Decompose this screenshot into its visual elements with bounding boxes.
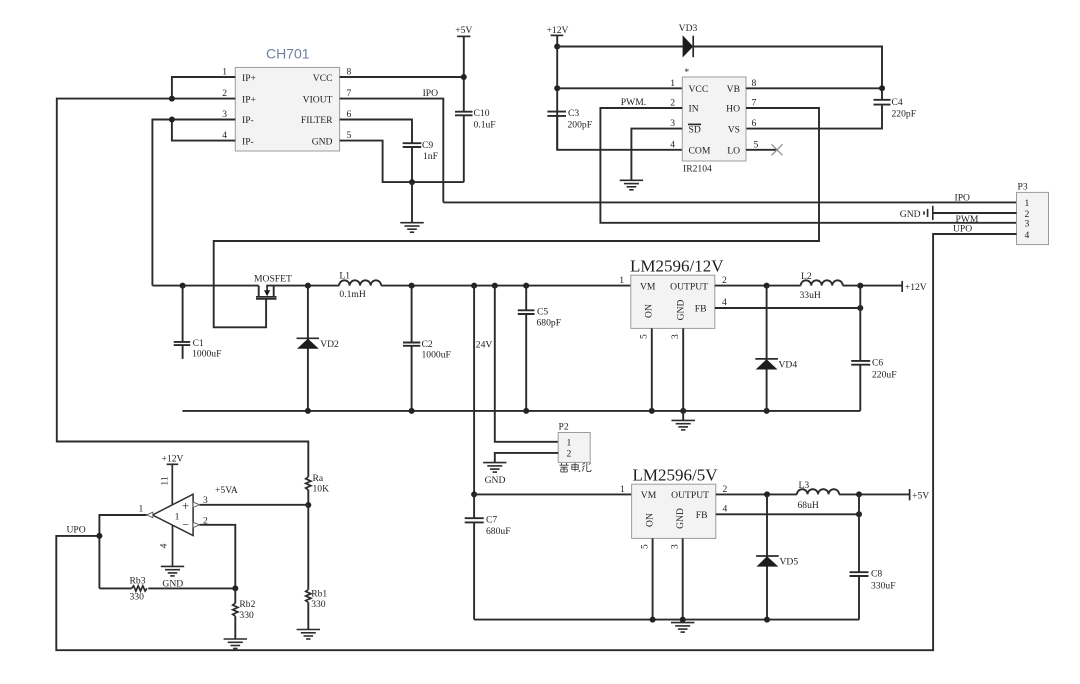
svg-text:LM2596/5V: LM2596/5V bbox=[633, 466, 719, 485]
svg-text:0.1mH: 0.1mH bbox=[339, 289, 365, 300]
resistor Rb3 330 bbox=[99, 575, 235, 602]
capacitor C4 bbox=[874, 97, 917, 120]
power +12V (op-amp) bbox=[162, 454, 184, 505]
svg-text:ON: ON bbox=[644, 304, 655, 318]
wire U4 OUTPUT to L3 bbox=[716, 491, 797, 497]
svg-text:PWM.: PWM. bbox=[621, 97, 646, 108]
svg-text:FB: FB bbox=[696, 510, 708, 521]
svg-text:68uH: 68uH bbox=[798, 500, 819, 511]
wire +5VA node to op-amp pin3 bbox=[200, 504, 309, 506]
inductor L1 bbox=[339, 271, 381, 301]
svg-text:L1: L1 bbox=[339, 271, 350, 282]
node feedback junction bbox=[232, 585, 238, 591]
terminal +12V output bbox=[902, 281, 927, 293]
svg-text:OUTPUT: OUTPUT bbox=[670, 281, 708, 292]
connector P3 bbox=[1017, 182, 1049, 245]
svg-text:330: 330 bbox=[239, 610, 254, 621]
svg-text:680pF: 680pF bbox=[537, 317, 562, 328]
wire P3 pin2 to gnd symbol bbox=[933, 212, 1017, 214]
ground (SD pin) bbox=[620, 180, 643, 190]
svg-text:LO: LO bbox=[727, 146, 740, 157]
wire +5V to VCC and C10 bbox=[340, 36, 467, 111]
wire PWM net: IN pin to P3 bbox=[600, 97, 1016, 223]
wire C3 bottom / COM line bbox=[557, 116, 682, 150]
svg-text:0.1uF: 0.1uF bbox=[474, 120, 496, 131]
ground (below C9) bbox=[400, 223, 423, 233]
svg-text:C7: C7 bbox=[486, 515, 497, 526]
svg-text:1: 1 bbox=[670, 78, 675, 89]
svg-text:8: 8 bbox=[347, 67, 352, 78]
wire U4 pin3 GND to ground rail bbox=[682, 538, 684, 622]
svg-text:LM2596/12V: LM2596/12V bbox=[630, 257, 724, 276]
svg-text:IPO: IPO bbox=[955, 192, 971, 203]
svg-text:1: 1 bbox=[620, 484, 625, 495]
terminal +5V output bbox=[910, 489, 930, 502]
svg-text:VCC: VCC bbox=[313, 73, 333, 84]
svg-text:7: 7 bbox=[752, 98, 757, 109]
svg-text:VIOUT: VIOUT bbox=[303, 94, 333, 105]
wire U5 pin4 to ground bbox=[172, 526, 174, 567]
svg-text:MOSFET: MOSFET bbox=[254, 274, 292, 285]
svg-text:C2: C2 bbox=[422, 339, 433, 350]
ground (P2) bbox=[483, 463, 506, 473]
svg-text:VD5: VD5 bbox=[780, 557, 799, 568]
svg-text:HO: HO bbox=[726, 104, 740, 115]
svg-text:+12V: +12V bbox=[905, 282, 927, 293]
wire LO pin stub bbox=[746, 149, 777, 151]
wire IPO net to P3 pin1 bbox=[443, 192, 1016, 203]
svg-text:5: 5 bbox=[347, 130, 352, 141]
wire ground rail (12V section) bbox=[182, 408, 860, 414]
wire L3 to +5V terminal bbox=[839, 491, 910, 497]
ground (U3 pin3) bbox=[672, 420, 695, 430]
svg-text:GND: GND bbox=[312, 136, 333, 147]
connector P2 bbox=[558, 422, 590, 463]
svg-text:IR2104: IR2104 bbox=[683, 164, 712, 175]
svg-text:VD2: VD2 bbox=[320, 339, 339, 350]
svg-text:24V: 24V bbox=[476, 340, 493, 351]
wire U4 pin5 ON to ground rail bbox=[652, 538, 654, 619]
svg-text:ON: ON bbox=[644, 513, 655, 527]
svg-text:1: 1 bbox=[222, 67, 227, 78]
svg-text:4: 4 bbox=[670, 139, 675, 150]
svg-text:+12V: +12V bbox=[162, 454, 184, 465]
wire U4 FB to output node bbox=[716, 494, 862, 572]
capacitor C2 bbox=[403, 286, 451, 411]
svg-text:P2: P2 bbox=[559, 422, 569, 433]
wire battery P2 positive net bbox=[495, 286, 558, 442]
svg-text:680uF: 680uF bbox=[486, 526, 511, 537]
transistor Q1 MOSFET bbox=[254, 274, 292, 299]
ground (U5 pin4) bbox=[161, 566, 184, 589]
svg-text:C8: C8 bbox=[871, 569, 882, 580]
wire node 24V down to 5V regulator input bbox=[474, 286, 492, 495]
IC U4 LM2596/5V bbox=[632, 466, 719, 539]
wire U5 pin2 to feedback node bbox=[200, 525, 236, 589]
svg-text:+5V: +5V bbox=[912, 491, 929, 502]
svg-text:COM: COM bbox=[689, 146, 711, 157]
svg-text:UPO: UPO bbox=[953, 224, 972, 235]
svg-text:UPO: UPO bbox=[67, 525, 86, 536]
svg-text:SD: SD bbox=[689, 124, 701, 135]
svg-text:+12V: +12V bbox=[547, 25, 569, 36]
svg-text:C3: C3 bbox=[568, 108, 579, 119]
wire U5 output to UPO node bbox=[96, 515, 146, 588]
svg-text:330: 330 bbox=[130, 592, 145, 603]
capacitor C8 bbox=[850, 569, 896, 620]
wire L2 to +12V terminal bbox=[843, 283, 902, 289]
node +5VA bbox=[215, 485, 311, 508]
resistor Rb2 330 bbox=[233, 588, 256, 639]
wire C10 bottom to gnd node bbox=[463, 115, 465, 182]
svg-text:200pF: 200pF bbox=[568, 120, 593, 131]
svg-text:1000uF: 1000uF bbox=[422, 350, 451, 361]
resistor Ra 10K bbox=[306, 473, 329, 505]
wire main 24V rail (left segment to MOSFET) bbox=[152, 285, 258, 287]
diode VD3 bbox=[679, 23, 698, 58]
svg-text:11: 11 bbox=[160, 476, 171, 485]
wire U3 pin5 ON to ground rail bbox=[651, 328, 653, 411]
diode VD4 bbox=[755, 286, 797, 411]
svg-text:4: 4 bbox=[722, 297, 727, 308]
wire C4 bottom to VS line bbox=[746, 105, 882, 129]
svg-text:3: 3 bbox=[222, 109, 227, 120]
svg-text:2: 2 bbox=[567, 449, 572, 460]
label 蓄电池 (battery) bbox=[560, 463, 592, 472]
svg-text:1000uF: 1000uF bbox=[192, 349, 221, 360]
svg-text:P3: P3 bbox=[1018, 182, 1028, 193]
svg-text:L3: L3 bbox=[799, 480, 810, 491]
svg-text:*: * bbox=[684, 67, 689, 78]
svg-text:IPO: IPO bbox=[423, 88, 439, 99]
capacitor C9 bbox=[403, 140, 438, 162]
svg-text:1nF: 1nF bbox=[423, 151, 438, 162]
svg-text:GND: GND bbox=[676, 300, 687, 321]
ground (rotated, P3 pin2) bbox=[900, 206, 933, 220]
svg-text:33uH: 33uH bbox=[800, 290, 821, 301]
svg-text:VCC: VCC bbox=[689, 84, 709, 95]
IC U3 LM2596/12V bbox=[630, 257, 724, 329]
diode VD5 bbox=[756, 494, 798, 619]
svg-text:1: 1 bbox=[619, 275, 624, 286]
svg-text:IP+: IP+ bbox=[242, 73, 256, 84]
svg-text:2: 2 bbox=[723, 484, 728, 495]
wire U3 OUTPUT to L2 bbox=[715, 283, 801, 289]
svg-text:C4: C4 bbox=[892, 97, 903, 108]
wire IP+ net: pins 1,2 down left bus bbox=[57, 77, 308, 477]
capacitor C3 bbox=[547, 108, 592, 131]
wire GND pin 5 to ground bus bbox=[340, 141, 464, 223]
wire P2 pin2 to ground bbox=[495, 453, 558, 463]
svg-text:C5: C5 bbox=[537, 307, 548, 318]
svg-text:+: + bbox=[182, 498, 189, 513]
svg-text:Rb1: Rb1 bbox=[311, 589, 327, 600]
ground (Rb2) bbox=[224, 639, 247, 649]
wire ground rail (5V section) bbox=[474, 617, 859, 623]
svg-text:VD4: VD4 bbox=[779, 360, 798, 371]
svg-text:FILTER: FILTER bbox=[301, 115, 333, 126]
svg-text:−: − bbox=[182, 518, 189, 532]
wire C9 bottom bbox=[411, 147, 413, 182]
svg-text:Rb2: Rb2 bbox=[239, 599, 255, 610]
svg-text:Ra: Ra bbox=[313, 473, 324, 484]
wire U3 FB to output node bbox=[715, 286, 864, 361]
capacitor C7 bbox=[465, 494, 511, 619]
svg-text:1: 1 bbox=[139, 504, 144, 515]
svg-text:6: 6 bbox=[752, 118, 757, 129]
no-connect X on LO bbox=[772, 144, 783, 155]
svg-text:CH701: CH701 bbox=[266, 46, 310, 62]
wire main 24V rail (MOSFET to LM2596/12V pin1) bbox=[180, 283, 631, 289]
wire SD pin to ground bbox=[631, 129, 682, 181]
wire UPO net: P3 pin4 down and along bottom to op-amp bbox=[56, 224, 1016, 651]
svg-text:GND: GND bbox=[485, 475, 506, 486]
svg-text:8: 8 bbox=[752, 78, 757, 89]
svg-text:L2: L2 bbox=[801, 271, 812, 282]
svg-text:7: 7 bbox=[347, 88, 352, 99]
svg-text:FB: FB bbox=[695, 304, 707, 315]
inductor L2 bbox=[800, 271, 843, 301]
svg-text:C1: C1 bbox=[193, 338, 204, 349]
svg-text:3: 3 bbox=[203, 495, 208, 506]
svg-text:1: 1 bbox=[1025, 198, 1030, 209]
wire HO net to MOSFET gate bbox=[214, 108, 819, 327]
svg-text:4: 4 bbox=[222, 130, 227, 141]
svg-text:220pF: 220pF bbox=[892, 109, 917, 120]
wire FILTER to C9 bbox=[340, 120, 412, 144]
svg-text:IP-: IP- bbox=[242, 115, 254, 126]
svg-text:C10: C10 bbox=[474, 108, 490, 119]
svg-text:+5VA: +5VA bbox=[215, 485, 238, 496]
svg-text:3: 3 bbox=[670, 544, 681, 549]
svg-text:2: 2 bbox=[670, 98, 675, 109]
ground (U4 pin3) bbox=[671, 623, 694, 633]
svg-text:VM: VM bbox=[641, 490, 657, 501]
power +5V bbox=[455, 25, 472, 36]
svg-text:220uF: 220uF bbox=[872, 369, 897, 380]
svg-text:2: 2 bbox=[722, 275, 727, 286]
svg-text:GND: GND bbox=[900, 209, 921, 220]
svg-text:3: 3 bbox=[670, 118, 675, 129]
capacitor C5 bbox=[518, 286, 561, 411]
svg-text:330uF: 330uF bbox=[871, 581, 896, 592]
inductor L3 bbox=[797, 480, 839, 511]
op-amp U1 CH701 current sensor bbox=[235, 46, 339, 152]
wire VD3 to C4 top bbox=[693, 47, 882, 100]
svg-text:3: 3 bbox=[670, 334, 681, 339]
svg-text:3: 3 bbox=[1025, 219, 1030, 230]
svg-text:10K: 10K bbox=[313, 484, 330, 495]
svg-text:GND: GND bbox=[675, 508, 686, 529]
svg-text:VS: VS bbox=[728, 124, 740, 135]
svg-text:4: 4 bbox=[159, 543, 170, 548]
wire IP- net: pins 3,4 down to main rail bbox=[152, 117, 235, 286]
svg-text:VB: VB bbox=[727, 84, 740, 95]
wire +12V vertical bus bbox=[554, 35, 560, 149]
wire 24V node to U4 VM bbox=[471, 491, 631, 497]
svg-text:IN: IN bbox=[689, 104, 699, 115]
svg-text:IP+: IP+ bbox=[242, 94, 256, 105]
wire VB line to C4 bbox=[746, 85, 885, 91]
wire bootstrap top: +12V to VD3 to C4 bbox=[557, 46, 682, 48]
wire VCC line (+12V to pin1) bbox=[557, 87, 682, 89]
svg-text:C6: C6 bbox=[872, 357, 883, 368]
ground (Rb1) bbox=[297, 630, 320, 640]
svg-text:1: 1 bbox=[175, 512, 180, 523]
svg-text:5: 5 bbox=[754, 139, 759, 150]
svg-text:6: 6 bbox=[347, 109, 352, 120]
svg-text:VD3: VD3 bbox=[679, 23, 698, 34]
svg-text:OUTPUT: OUTPUT bbox=[671, 490, 709, 501]
svg-text:VM: VM bbox=[640, 281, 656, 292]
power +12V (top) bbox=[547, 25, 569, 36]
svg-text:PWM: PWM bbox=[956, 214, 979, 225]
capacitor C6 bbox=[851, 357, 896, 411]
svg-text:2: 2 bbox=[222, 88, 227, 99]
capacitor C1 bbox=[174, 286, 222, 360]
capacitor C10 bbox=[455, 108, 496, 131]
svg-text:IP-: IP- bbox=[242, 136, 254, 147]
IC U2 IR2104 bbox=[682, 67, 746, 175]
svg-text:330: 330 bbox=[311, 599, 326, 610]
svg-text:Rb3: Rb3 bbox=[130, 575, 146, 586]
svg-text:5: 5 bbox=[639, 334, 650, 339]
diode VD2 bbox=[297, 286, 340, 411]
resistor Rb1 330 bbox=[306, 505, 328, 630]
svg-text:5: 5 bbox=[639, 544, 650, 549]
svg-text:4: 4 bbox=[723, 504, 728, 515]
wire VIOUT IPO net down bbox=[340, 88, 444, 203]
svg-text:+5V: +5V bbox=[455, 25, 472, 36]
svg-text:C9: C9 bbox=[422, 140, 433, 151]
wire U3 pin3 GND to ground rail bbox=[682, 328, 684, 420]
op-amp U5 comparator bbox=[147, 494, 200, 535]
svg-text:1: 1 bbox=[567, 438, 572, 449]
svg-text:4: 4 bbox=[1025, 230, 1030, 241]
